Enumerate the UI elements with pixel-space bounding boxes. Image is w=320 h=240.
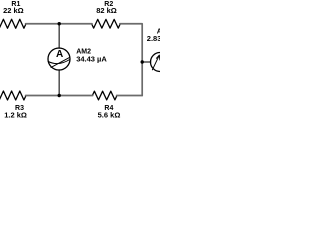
svg-text:A: A xyxy=(56,49,63,60)
svg-text:22 kΩ: 22 kΩ xyxy=(3,6,24,15)
svg-text:2.83 mA: 2.83 mA xyxy=(147,34,160,43)
svg-text:34.43 µA: 34.43 µA xyxy=(76,55,107,64)
svg-text:5.6 kΩ: 5.6 kΩ xyxy=(98,110,121,119)
svg-text:1.2 kΩ: 1.2 kΩ xyxy=(4,110,27,119)
svg-text:82 kΩ: 82 kΩ xyxy=(96,6,117,15)
